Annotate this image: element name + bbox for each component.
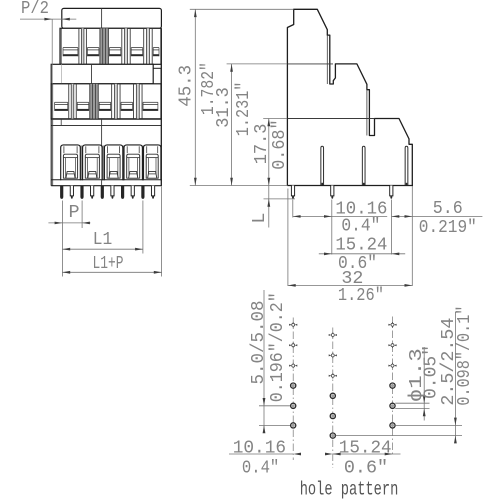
side view: tier 2 top interior line (288, 63, 334, 65)
dimension 31.3 extension line (227, 63, 287, 65)
hole pattern: column 1 position marker 1 (292, 323, 295, 326)
svg-text:0.68": 0.68" (269, 119, 290, 169)
hole pattern: column 3 position marker 3 (391, 364, 394, 367)
svg-text:P: P (68, 202, 79, 223)
front view: tier 2 pole separator walls (52, 84, 54, 119)
side view: pin guide slot 2 (362, 146, 365, 185)
front view: housing base lines (51, 179, 162, 181)
dimension 32 arrows (288, 284, 296, 287)
dimension 15.24 line (319, 253, 405, 255)
dimension 5.6 arrows (392, 215, 400, 218)
hole pattern: column 2 position marker 3 (331, 374, 334, 377)
front view: tier 3 housing band (51, 118, 161, 120)
dimension dia1.3 line (423, 347, 425, 421)
front view: tier 2 housing band (51, 64, 153, 84)
dimension L1 arrows (62, 248, 70, 251)
front view: solder pin 4 (91, 186, 94, 196)
dimension 2.5/2.54 extension lines (395, 424, 462, 426)
front view: tier 3 clamp unit 1 with screw (61, 145, 81, 180)
dimension 45.3 line (194, 9, 196, 185)
dimension 15.24 extension line (391, 200, 393, 255)
front view: housing right wall (160, 28, 162, 185)
side view: pin guide slot 1 (321, 146, 324, 185)
hole pattern: column 2 position marker 2 (331, 354, 334, 357)
dimension hole 10.16 line (229, 453, 293, 455)
side view: stepped housing outline (287, 9, 412, 185)
dimension P/2 arrows (44, 18, 52, 21)
hole pattern: column 1 position marker 3 (292, 364, 295, 367)
hole pattern: column 3 position marker 1 (391, 323, 394, 326)
dimension 45.3 arrows (194, 9, 197, 17)
svg-text:0.219": 0.219" (419, 217, 477, 238)
dimension P extension lines (61, 201, 63, 277)
hole pattern: column 2 position marker 1 (331, 334, 334, 337)
dimension L1 line (62, 248, 142, 250)
hole pattern: column 2 drill hole 2 (330, 413, 335, 418)
svg-text:10.16: 10.16 (233, 437, 286, 458)
dimension L1+P line (62, 271, 161, 273)
front view: solder pin 10 (151, 186, 154, 196)
dimension 45.3 extension line (190, 8, 294, 10)
dimension 31.3 line (231, 64, 233, 186)
dimension 32 line (288, 284, 412, 286)
svg-text:P/2: P/2 (21, 0, 49, 19)
dimension 31.3 arrows (230, 64, 233, 72)
dimension 5.0/5.08 arrows (263, 398, 266, 406)
front view: solder pin 5 (101, 186, 104, 199)
hole pattern: column 3 center line (392, 317, 394, 456)
front view: solder pin 7 (121, 186, 124, 199)
hole pattern: column 3 drill hole 2 (390, 403, 395, 408)
hole pattern: column 1 drill hole 1 (291, 383, 296, 388)
svg-text:hole pattern: hole pattern (300, 479, 399, 500)
front view: tier 1 wire clamp ledges (63, 47, 78, 49)
svg-text:L: L (249, 213, 270, 224)
dimension 2.5/2.54 line (454, 312, 456, 441)
side view: solder pin 3 (390, 186, 393, 196)
svg-text:1.26": 1.26" (338, 285, 384, 306)
front view: solder pin 3 (80, 186, 83, 199)
front view: tier 3 clamp unit 3 with screw (104, 145, 122, 180)
front view: solder pin 8 (131, 186, 134, 196)
front view: solder pin 9 (141, 186, 144, 199)
dimension L1+P extension line (161, 187, 163, 277)
dimension 2.5/2.54 arrows (454, 418, 457, 426)
hole pattern: column 1 drill hole 2 (291, 403, 296, 408)
dimension L pin length arrow (267, 199, 270, 207)
dimension P/2 leader line (20, 18, 76, 20)
dimension 17.3 line (268, 119, 270, 186)
svg-text:L1+P: L1+P (93, 253, 124, 274)
side view: tier 3 top interior line (288, 118, 375, 120)
front view: tier 3 inter-clamp gaps (80, 146, 82, 181)
hole pattern: column 1 position marker 2 (292, 344, 295, 347)
dimension 5.6 line (392, 215, 483, 217)
side view: pin guide slot 3 (405, 146, 408, 185)
hole pattern: column 1 center line (292, 318, 294, 461)
dimension P line (48, 222, 90, 224)
hole pattern: column 2 drill hole 3 (330, 433, 335, 438)
front view: tier 3 clamp unit 2 with screw (83, 145, 103, 180)
front view: tier 1 clamp row body (60, 28, 161, 64)
side view: solder pin 2 (331, 186, 334, 196)
svg-text:15.24: 15.24 (339, 437, 392, 458)
svg-text:31.3: 31.3 (213, 87, 234, 128)
dimension dia1.3 extension lines (395, 402, 429, 404)
front view: tier 2 clamp row body (51, 84, 161, 119)
dimension 10.16 extension lines (292, 200, 294, 218)
svg-text:5.0/5.08: 5.0/5.08 (248, 301, 269, 385)
front view: solder pin 1 (60, 186, 63, 199)
dimension hole 15.24 arrows (333, 453, 341, 456)
svg-text:0.6": 0.6" (344, 458, 388, 479)
dimension 5.0/5.08 line (263, 290, 265, 433)
front view: tier 1 pole separator walls (60, 28, 62, 64)
front view: tier 3 clamp unit 5 with screw (144, 145, 161, 180)
dimension 5.0/5.08 extension lines (259, 405, 290, 407)
side view: interior edge lines (326, 35, 328, 84)
dimension 32 extension lines (287, 189, 289, 287)
dimension 15.24 arrows (324, 253, 332, 256)
dimension 10.16 arrows (293, 215, 301, 218)
dimension hole 10.16 arrows (293, 453, 301, 456)
side view: base line (190, 185, 288, 187)
dimension L1+P arrows (62, 271, 70, 274)
hole pattern: column 3 position marker 2 (391, 344, 394, 347)
svg-text:45.3: 45.3 (175, 65, 196, 107)
hole pattern: column 3 drill hole 3 (390, 423, 395, 428)
dimension 17.3 extension line (263, 118, 287, 120)
dimension dia1.3 arrows (423, 395, 426, 403)
dimension 10.16 line (293, 215, 387, 217)
dimension L pin length extension line (264, 198, 296, 200)
front view: housing left wall (50, 84, 52, 186)
svg-text:0.098"/0.1": 0.098"/0.1" (454, 306, 475, 406)
front view: tier 1 housing band (62, 8, 162, 28)
hole pattern: column 1 drill hole 3 (291, 423, 296, 428)
svg-text:L1: L1 (93, 229, 113, 250)
hole pattern: column 3 drill hole 1 (390, 383, 395, 388)
dimension L1 extension line (142, 201, 144, 254)
svg-text:0.196"/0.2": 0.196"/0.2" (267, 292, 288, 402)
front view: tier 3 clamp unit 4 with screw (124, 145, 142, 180)
side view: solder pin 1 (291, 186, 294, 196)
front view: tier 2 wire clamp ledges (55, 101, 68, 103)
front view: solder pin 2 (70, 186, 73, 196)
dimension P arrows (55, 222, 63, 225)
front view: solder pin 6 (111, 186, 114, 196)
dimension L pin length line (268, 186, 270, 228)
hole pattern: column 2 center line (332, 328, 334, 469)
dimension 17.3 arrows (267, 119, 270, 127)
dimension hole 15.24 line (333, 453, 401, 455)
hole pattern: column 2 drill hole 1 (330, 393, 335, 398)
svg-text:0.4": 0.4" (242, 458, 279, 479)
